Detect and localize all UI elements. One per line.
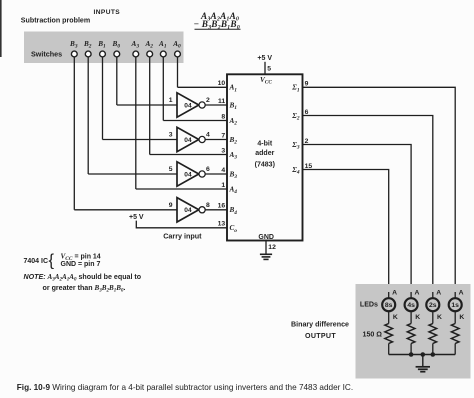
- wire cathode of 2s to resistor: [432, 311, 434, 323]
- LED D4 (1s): [449, 298, 462, 311]
- svg-text:Fig. 10-9 Wiring diagram for: Fig. 10-9 Wiring diagram for a 4-bit par…: [17, 383, 353, 392]
- wire Sigma4 to LED 8s column: [303, 170, 389, 293]
- wire from switch B3 down: [73, 57, 75, 210]
- wire from switch A0 down: [177, 57, 179, 87]
- switch terminal A0: [175, 51, 181, 57]
- svg-text:A: A: [392, 290, 397, 297]
- svg-text:GND = pin 7: GND = pin 7: [61, 261, 101, 268]
- svg-text:{: {: [49, 251, 55, 269]
- svg-text:4: 4: [206, 132, 210, 139]
- wire +5V to Vcc pin 5: [264, 62, 266, 75]
- switch terminal A1: [160, 51, 166, 57]
- svg-text:1: 1: [221, 182, 225, 189]
- svg-text:3: 3: [169, 132, 173, 139]
- junction dot at x=411.1: [409, 352, 414, 357]
- wire resistor bottom of 2s to rail: [432, 344, 434, 355]
- wire anode into LED 1s: [454, 292, 456, 298]
- svg-text:K: K: [437, 314, 442, 321]
- svg-text:2: 2: [206, 97, 210, 104]
- LED D1 (8s): [382, 298, 395, 311]
- wire resistor bottom of 1s to rail: [454, 344, 456, 355]
- ground symbol (adder GND): [260, 253, 272, 255]
- svg-text:5: 5: [169, 166, 173, 173]
- wire switch column to inverter U1D input: [74, 209, 177, 211]
- svg-text:1: 1: [169, 97, 173, 104]
- wire common cathode rail: [389, 354, 456, 356]
- wire A1 to adder A2 pin 8: [163, 120, 227, 122]
- wire anode into LED 4s: [410, 292, 412, 298]
- output gray box: [356, 284, 471, 379]
- wire switch column to inverter U1B input: [103, 139, 178, 141]
- resistor 150 ohm under LED 2s: [429, 324, 437, 344]
- svg-text:9: 9: [169, 202, 173, 209]
- wire anode into LED 8s: [388, 292, 390, 298]
- svg-text:150 Ω: 150 Ω: [363, 331, 383, 339]
- svg-text:9: 9: [305, 81, 309, 88]
- junction dot at x=422.8: [421, 352, 426, 357]
- svg-text:1s: 1s: [451, 302, 459, 309]
- svg-text:5: 5: [267, 66, 271, 73]
- wire A3 to adder A4 pin 1: [136, 188, 227, 190]
- svg-text:8s: 8s: [385, 302, 393, 309]
- wire inverter U1C output to adder: [205, 173, 227, 175]
- LED D2 (4s): [405, 298, 418, 311]
- switch terminal B1: [100, 51, 106, 57]
- svg-text:04: 04: [184, 171, 192, 178]
- wire resistor bottom of 4s to rail: [410, 344, 412, 355]
- svg-text:2s: 2s: [429, 302, 437, 309]
- svg-text:7404 IC: 7404 IC: [24, 258, 49, 265]
- wire inverter U1B output to adder: [205, 139, 227, 141]
- inverter U1D output bubble: [199, 207, 205, 213]
- svg-text:8: 8: [221, 113, 225, 120]
- IC U2: 4-bit adder 7483 box: [227, 74, 303, 240]
- resistor 150 ohm under LED 8s: [385, 324, 393, 344]
- wire cathode of 1s to resistor: [454, 311, 456, 323]
- svg-text:K: K: [415, 314, 420, 321]
- svg-text:6: 6: [206, 166, 210, 173]
- wire from switch B1 down: [102, 57, 104, 140]
- wire A2 to adder A3 pin 3: [150, 154, 227, 156]
- switches box: [24, 32, 184, 64]
- svg-text:LEDs: LEDs: [360, 301, 378, 309]
- svg-text:+5 V: +5 V: [129, 214, 144, 221]
- wire inverter U1D output to adder: [205, 209, 227, 211]
- switch terminal A2: [147, 51, 153, 57]
- inverter U1D (7404): [177, 198, 199, 222]
- wire from switch A1 down: [162, 57, 164, 121]
- ground symbol (LED rail): [416, 366, 430, 368]
- wire from switch A2 down: [149, 57, 151, 155]
- wire Sigma3 to LED 4s column: [303, 145, 412, 293]
- inverter U1C (7404): [177, 162, 199, 186]
- svg-text:11: 11: [218, 98, 225, 105]
- switch terminal A3: [133, 51, 139, 57]
- wire inverter U1A output to adder: [205, 104, 227, 106]
- svg-text:K: K: [393, 314, 398, 321]
- svg-text:adder: adder: [255, 150, 274, 157]
- svg-text:A: A: [459, 290, 464, 297]
- svg-text:K: K: [459, 314, 464, 321]
- wire Sigma2 to LED 2s column: [303, 116, 433, 293]
- svg-text:A: A: [415, 290, 420, 297]
- svg-text:04: 04: [184, 102, 192, 109]
- svg-text:13: 13: [218, 221, 226, 228]
- LED D3 (2s): [426, 298, 439, 311]
- wire from switch B0 down: [116, 57, 118, 105]
- svg-text:Subtraction problem: Subtraction problem: [21, 16, 90, 24]
- resistor 150 ohm under LED 4s: [407, 324, 415, 344]
- resistor 150 ohm under LED 1s: [451, 324, 459, 344]
- scan edge line (book gutter): [0, 0, 2, 57]
- wire carry input +5V to C0 pin 13: [136, 221, 227, 228]
- inverter U1C output bubble: [199, 171, 205, 177]
- svg-text:10: 10: [218, 80, 226, 87]
- inverter U1B output bubble: [199, 136, 205, 142]
- svg-text:2: 2: [305, 138, 309, 145]
- svg-text:+5 V: +5 V: [257, 55, 272, 62]
- svg-text:04: 04: [184, 207, 192, 214]
- svg-text:12: 12: [268, 244, 276, 251]
- wire switch column to inverter U1A input: [117, 104, 177, 106]
- svg-text:04: 04: [184, 137, 192, 144]
- svg-text:16: 16: [218, 203, 226, 210]
- wire switch column to inverter U1C input: [88, 173, 177, 175]
- svg-text:7: 7: [221, 132, 225, 139]
- wire rail to ground: [422, 355, 424, 367]
- svg-text:3: 3: [221, 147, 225, 154]
- inverter U1A output bubble: [199, 102, 205, 108]
- inverter U1B (7404): [177, 127, 199, 151]
- wire from switch B2 down: [87, 57, 89, 174]
- svg-text:INPUTS: INPUTS: [94, 9, 121, 16]
- svg-text:GND: GND: [258, 234, 274, 241]
- svg-text:A: A: [436, 290, 441, 297]
- wire Sigma1 to LED 1s column: [303, 87, 456, 292]
- wire GND pin 12: [265, 241, 267, 254]
- svg-text:Switches: Switches: [31, 49, 62, 58]
- wire from switch A3 down: [135, 57, 137, 189]
- junction dot at x=432.8: [431, 352, 436, 357]
- switch terminal B2: [85, 51, 91, 57]
- wire anode into LED 2s: [432, 292, 434, 298]
- svg-text:8: 8: [206, 202, 210, 209]
- svg-text:4s: 4s: [407, 302, 415, 309]
- svg-text:Binary difference: Binary difference: [291, 320, 349, 328]
- equation rule line: [195, 28, 241, 30]
- svg-text:(7483): (7483): [255, 161, 275, 168]
- svg-text:4-bit: 4-bit: [257, 140, 272, 147]
- svg-text:4: 4: [221, 167, 225, 174]
- wire resistor bottom of 8s to rail: [388, 344, 390, 355]
- wire cathode of 4s to resistor: [410, 311, 412, 323]
- wire cathode of 8s to resistor: [388, 311, 390, 323]
- wire A0 to adder A1 pin 10: [178, 86, 228, 88]
- switch terminal B0: [114, 51, 120, 57]
- svg-text:OUTPUT: OUTPUT: [305, 332, 336, 340]
- inverter U1A (7404): [177, 93, 199, 117]
- switch terminal B3: [71, 51, 77, 57]
- svg-text:Carry input: Carry input: [163, 232, 202, 241]
- svg-text:15: 15: [305, 163, 313, 170]
